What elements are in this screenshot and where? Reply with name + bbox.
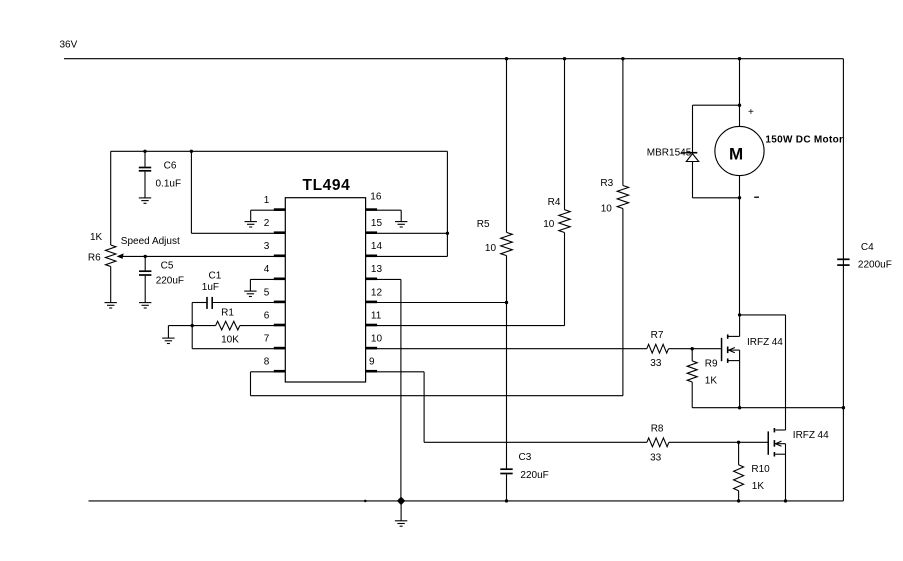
resistor R9 1K — [687, 349, 697, 408]
wire pin 8 — [251, 372, 623, 396]
wire pin 16 — [377, 210, 401, 221]
label C1 — [209, 270, 222, 281]
label 33 (R7) — [650, 358, 662, 369]
label 10 (R4) — [543, 219, 555, 230]
label 220uF (C5) — [156, 275, 184, 286]
label C3 — [519, 452, 532, 463]
svg-text:R9: R9 — [705, 359, 718, 370]
svg-text:220uF: 220uF — [520, 470, 548, 481]
pin 15 number — [371, 218, 383, 229]
pin 14 number — [371, 241, 383, 252]
wire pin 2 — [191, 232, 285, 234]
svg-text:C4: C4 — [861, 242, 874, 253]
pin 3 number — [264, 241, 270, 252]
label R6 — [88, 253, 101, 264]
svg-text:R7: R7 — [651, 330, 664, 341]
svg-text:M: M — [729, 144, 743, 163]
label R3 — [600, 178, 613, 189]
svg-text:10K: 10K — [221, 335, 239, 346]
ground main — [395, 521, 407, 526]
wire R7 to Q1 gate — [669, 348, 721, 350]
svg-text:C5: C5 — [161, 261, 174, 272]
wire right rail (to C4) — [842, 59, 844, 501]
label 1K (R10) — [752, 481, 765, 492]
svg-text:IRFZ44: IRFZ44 — [747, 337, 783, 348]
label IRFZ44 (Q2) — [793, 430, 829, 441]
svg-text:TL494: TL494 — [303, 177, 351, 194]
svg-text:1uF: 1uF — [202, 282, 219, 293]
ground R6 — [105, 303, 117, 308]
label 1uF — [202, 282, 219, 293]
motor M1 circle — [715, 126, 764, 175]
pin 8 number — [264, 357, 270, 368]
label 150W DC Motor — [765, 135, 843, 146]
wire C1-R1 node vertical — [191, 303, 193, 349]
label C5 — [161, 261, 174, 272]
svg-text:3: 3 — [264, 241, 270, 252]
wire pin 2 drop — [190, 151, 192, 233]
pin 9 stub — [366, 370, 378, 373]
svg-text:6: 6 — [264, 310, 270, 321]
svg-text:33: 33 — [650, 358, 662, 369]
svg-text:+: + — [748, 107, 754, 118]
wire pin 10 — [366, 348, 647, 350]
capacitor C5 — [139, 256, 151, 302]
pin 12 stub — [366, 301, 378, 304]
junction R10 / gate wire — [737, 441, 740, 444]
pin 12 number — [371, 287, 383, 298]
svg-text:R5: R5 — [477, 219, 490, 230]
pin 10 number — [371, 334, 383, 345]
label R9 — [705, 359, 718, 370]
junction wiper wire / C5 — [144, 255, 147, 258]
pin 16 stub — [366, 208, 378, 211]
wire motor top — [739, 59, 741, 127]
junction R9 / gate wire — [691, 347, 694, 350]
junction R5 / pin 12 — [505, 301, 508, 304]
svg-text:R10: R10 — [751, 464, 770, 475]
pin 2 number — [264, 218, 270, 229]
resistor R5 10 — [501, 59, 513, 469]
junction source rail / right rail — [842, 406, 845, 409]
wire diode bottom branch — [693, 197, 740, 199]
svg-text:IRFZ44: IRFZ44 — [793, 430, 829, 441]
label 36V — [60, 40, 78, 51]
svg-text:C6: C6 — [164, 161, 177, 172]
junction motor minus — [738, 196, 741, 199]
pin 1 number — [264, 195, 270, 206]
svg-text:16: 16 — [370, 191, 382, 202]
wire pin 15 — [377, 232, 447, 234]
wire pin 11 — [366, 325, 565, 327]
wire node A down to pin 14 — [446, 151, 448, 256]
wire Q1 source rail — [692, 407, 843, 409]
svg-text:1: 1 — [264, 195, 270, 206]
pin 7 number — [264, 334, 270, 345]
wire motor minus down — [739, 176, 741, 315]
pin 9 number — [369, 357, 375, 368]
pin 11 stub — [366, 324, 378, 327]
svg-text:36V: 36V — [60, 40, 78, 51]
ground pin 1 — [245, 222, 257, 227]
op-amp U1 TL494 body — [285, 198, 365, 382]
label 33 (R8) — [650, 452, 662, 463]
svg-text:10: 10 — [543, 219, 555, 230]
resistor R6 1K potentiometer — [106, 151, 116, 302]
transistor Q2 IRFZ44 — [768, 428, 786, 501]
junction R1 node — [191, 324, 194, 327]
pin 2 stub — [274, 231, 286, 234]
junction top rail / motor — [738, 57, 741, 60]
junction node A / C6 — [143, 150, 146, 153]
svg-text:R6: R6 — [88, 253, 101, 264]
label M (motor) — [729, 144, 743, 163]
resistor R7 33 — [647, 344, 669, 353]
wire top +36V rail — [64, 58, 843, 60]
capacitor C4 2200uF — [837, 259, 849, 265]
svg-text:C3: C3 — [519, 452, 532, 463]
junction node A / pin15 — [446, 232, 449, 235]
wire pin 7 — [192, 348, 285, 350]
pin 16 number — [370, 191, 382, 202]
label C6 — [164, 161, 177, 172]
wire pin 4 — [250, 279, 285, 291]
svg-text:0.1uF: 0.1uF — [156, 179, 182, 190]
ground C6 — [139, 198, 151, 203]
svg-text:2200uF: 2200uF — [858, 259, 892, 270]
wiper arrow R6 — [117, 253, 124, 259]
wire pin 14 — [366, 255, 448, 257]
ground pin 16 — [395, 222, 407, 227]
capacitor C3 220uF — [500, 469, 512, 501]
pin 5 stub — [274, 301, 286, 304]
wire diode top branch — [693, 105, 740, 152]
wire pin 12 — [366, 302, 507, 304]
label R10 — [751, 464, 770, 475]
svg-text:Speed Adjust: Speed Adjust — [121, 236, 180, 247]
svg-text:R8: R8 — [651, 423, 664, 434]
wire bottom ground rail — [89, 500, 844, 502]
label IRFZ44 (Q1) — [747, 337, 783, 348]
junction node A / pin2 wire — [190, 150, 193, 153]
pin 11 number — [371, 310, 382, 321]
wire pin 1 — [251, 210, 286, 221]
label R4 — [548, 197, 561, 208]
svg-text:8: 8 — [264, 357, 270, 368]
svg-text:1K: 1K — [752, 481, 765, 492]
label - (motor minus) — [754, 196, 759, 198]
svg-text:15: 15 — [371, 218, 383, 229]
svg-text:1K: 1K — [705, 375, 718, 386]
ground R1 node — [162, 338, 174, 343]
pin 1 stub — [274, 208, 286, 211]
svg-text:10: 10 — [485, 243, 497, 254]
junction main ground — [397, 497, 405, 505]
resistor R10 1K — [734, 442, 744, 501]
svg-text:14: 14 — [371, 241, 383, 252]
label R1 — [221, 308, 234, 319]
svg-text:12: 12 — [371, 287, 383, 298]
wire main ground stem — [400, 501, 402, 521]
svg-text:10: 10 — [601, 204, 613, 215]
pin 13 stub — [366, 278, 378, 281]
label 220uF (C3) — [520, 470, 548, 481]
pin 10 stub — [366, 347, 378, 350]
pin 3 stub — [274, 255, 286, 258]
pin 6 number — [264, 310, 270, 321]
svg-text:33: 33 — [650, 452, 662, 463]
svg-text:150W DC Motor: 150W DC Motor — [765, 135, 843, 146]
svg-text:4: 4 — [264, 264, 270, 275]
junction top rail / R4 — [563, 57, 566, 60]
ground C5 — [139, 303, 151, 308]
label 2200uF — [858, 259, 892, 270]
pin 13 number — [371, 264, 383, 275]
svg-text:1K: 1K — [90, 232, 103, 243]
label 1K (R9) — [705, 375, 718, 386]
pin 15 stub — [366, 231, 378, 234]
label + (motor plus) — [748, 107, 754, 118]
svg-text:11: 11 — [371, 310, 382, 321]
svg-text:220uF: 220uF — [156, 275, 184, 286]
wire pin 3 (wiper to pin 3) — [118, 255, 285, 257]
pin 5 number — [264, 287, 270, 298]
svg-text:2: 2 — [264, 218, 270, 229]
resistor R1 10K — [192, 321, 285, 330]
svg-text:R1: R1 — [221, 308, 234, 319]
wire ground branch R1 node — [168, 326, 192, 339]
junction Q1 source — [738, 406, 741, 409]
pin 4 number — [264, 264, 270, 275]
svg-text:MBR1545: MBR1545 — [647, 147, 692, 158]
svg-text:C1: C1 — [209, 270, 222, 281]
resistor R8 33 — [647, 438, 669, 447]
pin 6 stub — [274, 324, 286, 327]
label R5 — [477, 219, 490, 230]
junction top rail / R3 — [621, 57, 624, 60]
resistor R3 10 — [617, 59, 628, 396]
label 10K — [221, 335, 239, 346]
label TL494 — [303, 177, 351, 194]
label 0.1uF — [156, 179, 182, 190]
capacitor C1 1uF — [192, 297, 285, 309]
svg-text:13: 13 — [371, 264, 383, 275]
label 10 (R5) — [485, 243, 497, 254]
junction top rail / R5 — [505, 57, 508, 60]
junction Q2 source / bottom rail — [784, 499, 787, 502]
svg-text:9: 9 — [369, 357, 375, 368]
diode D1 MBR1545 — [681, 153, 699, 198]
label R8 — [651, 423, 664, 434]
junction bottom rail small — [364, 500, 367, 503]
label R7 — [651, 330, 664, 341]
wire Q1 drain to Q2 drain — [740, 315, 786, 430]
wire R8 to Q2 gate — [669, 441, 768, 443]
pin 8 stub — [274, 370, 286, 373]
svg-text:5: 5 — [264, 287, 270, 298]
label Speed Adjust — [121, 236, 180, 247]
label 10 (R3) — [601, 204, 613, 215]
junction C3 / bottom rail — [505, 499, 508, 502]
ground pin 4 — [244, 291, 256, 296]
capacitor C6 — [139, 151, 151, 198]
svg-text:10: 10 — [371, 334, 383, 345]
transistor Q1 IRFZ44 — [721, 315, 740, 408]
pin 14 stub — [366, 255, 378, 258]
junction motor / Q1 drain — [738, 313, 741, 316]
wire pin 9 — [377, 372, 647, 443]
wire pin 13 — [366, 279, 401, 501]
label C4 — [861, 242, 874, 253]
pin 4 stub — [274, 278, 286, 281]
label MBR1545 — [647, 147, 692, 158]
svg-text:R4: R4 — [548, 197, 561, 208]
resistor R4 10 — [559, 59, 570, 326]
label 1K (R6) — [90, 232, 103, 243]
junction R10 / bottom rail — [737, 499, 740, 502]
svg-text:7: 7 — [264, 334, 270, 345]
wire node A horizontal (Vref node) — [111, 150, 448, 152]
svg-text:R3: R3 — [600, 178, 613, 189]
pin 7 stub — [274, 347, 286, 350]
junction motor / diode top — [738, 104, 741, 107]
